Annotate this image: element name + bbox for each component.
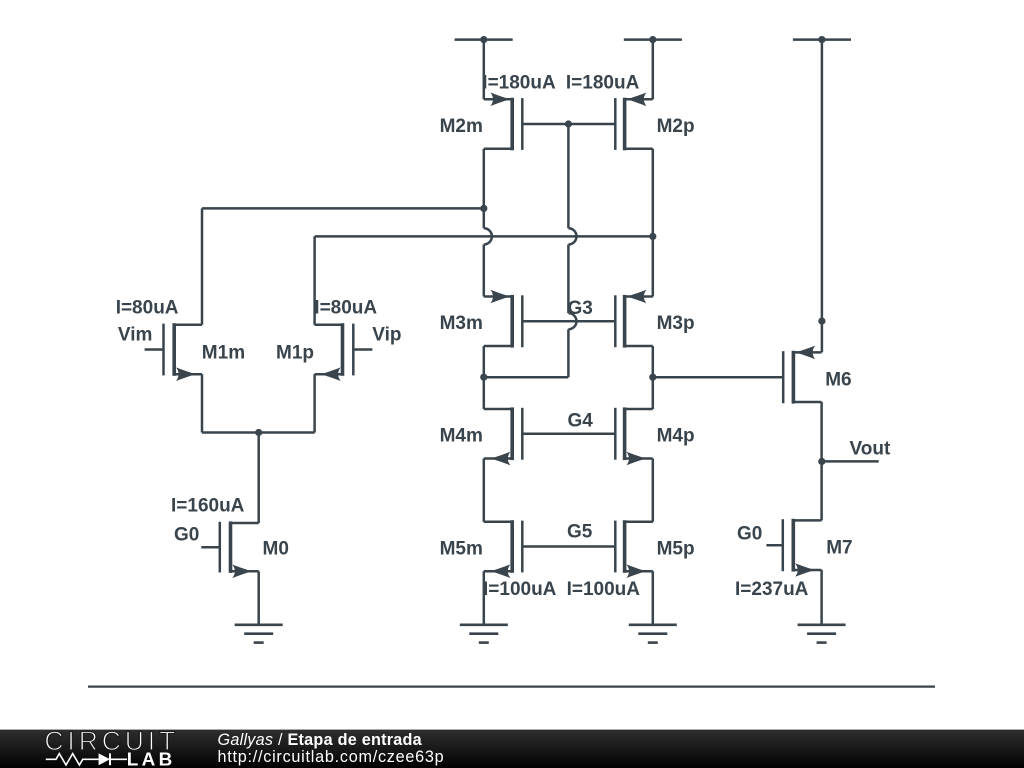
footer title Gallyas / Etapa de entrada bbox=[218, 731, 423, 749]
label M1m bbox=[202, 342, 245, 363]
transistor M1p bbox=[315, 323, 354, 381]
svg-text:M5m: M5m bbox=[440, 539, 483, 560]
junction dot M2 gates bbox=[565, 120, 572, 127]
svg-text:M3p: M3p bbox=[657, 313, 695, 334]
svg-text:M6: M6 bbox=[825, 370, 851, 391]
power rail T (middle) bbox=[624, 38, 682, 41]
wire column B M2p drain to M3p source bbox=[652, 149, 655, 297]
svg-text:I=160uA: I=160uA bbox=[171, 496, 245, 517]
ground under M5p bbox=[629, 625, 677, 643]
svg-text:I=237uA: I=237uA bbox=[735, 579, 809, 600]
junction dot M1p drain at column B bbox=[649, 233, 656, 240]
transistor M0 bbox=[220, 521, 259, 578]
svg-text:M5p: M5p bbox=[657, 539, 695, 560]
separator line bbox=[88, 685, 935, 687]
wire Vout stub bbox=[822, 460, 879, 463]
svg-text:M2p: M2p bbox=[657, 116, 695, 137]
svg-text:M2m: M2m bbox=[440, 116, 483, 137]
label M3p bbox=[657, 313, 695, 334]
transistor M5m bbox=[484, 520, 523, 578]
transistor M6 bbox=[783, 346, 821, 404]
logo diode bbox=[99, 753, 127, 765]
value label I=100uA (M5m) bbox=[483, 579, 557, 600]
wire node34 to M2-gate drop bbox=[484, 376, 569, 379]
junction dot node34 A bbox=[480, 374, 487, 381]
wire M7 gate lead bbox=[766, 544, 782, 547]
wire column A M4m source to M5m drain bbox=[483, 459, 486, 522]
wire M1m gate lead bbox=[145, 348, 164, 351]
wire node34 to M6 gate bbox=[653, 376, 784, 379]
svg-text:G4: G4 bbox=[568, 410, 594, 431]
node label G5 bbox=[567, 522, 593, 543]
svg-text:Vim: Vim bbox=[118, 325, 153, 346]
junction dot M1m drain at column A bbox=[480, 205, 487, 212]
wire M0 source to ground bbox=[257, 571, 260, 625]
wire M5m source to ground bbox=[483, 571, 486, 625]
net label Vout bbox=[850, 438, 891, 459]
wire M1p drain horizontal bbox=[315, 235, 653, 238]
svg-text:I=100uA: I=100uA bbox=[483, 579, 557, 600]
wire tail to M0 drain bbox=[257, 433, 260, 524]
label M5p bbox=[657, 539, 695, 560]
footer bar bbox=[0, 730, 1024, 768]
value label I=100uA (M5p) bbox=[567, 579, 641, 600]
svg-text:M4m: M4m bbox=[440, 426, 483, 447]
svg-text:M1p: M1p bbox=[276, 342, 314, 363]
value label I=80uA (M1p) bbox=[314, 298, 377, 319]
wire column A M2m drain to M3m source (with hop) bbox=[484, 149, 492, 297]
label M5m bbox=[440, 539, 483, 560]
wire M1p source down bbox=[313, 374, 316, 432]
junction dot rail middle bbox=[649, 36, 656, 43]
svg-text:M0: M0 bbox=[263, 539, 289, 560]
value label I=180uA (M2m) bbox=[482, 73, 556, 94]
transistor M2m bbox=[484, 93, 523, 151]
transistor M3m bbox=[484, 290, 523, 348]
logo resistor zigzag bbox=[46, 754, 99, 765]
value label I=180uA (M2p) bbox=[566, 73, 640, 94]
wire M7 source to ground bbox=[820, 570, 823, 625]
label Vip bbox=[372, 325, 401, 346]
wire M1m drain horizontal bbox=[202, 207, 484, 210]
footer url bbox=[218, 748, 445, 766]
power rail T (left) bbox=[455, 38, 513, 41]
ground under M7 bbox=[798, 625, 846, 643]
wire M1m drain vertical bbox=[201, 208, 204, 324]
ground under M0 bbox=[235, 625, 283, 643]
svg-text:G3: G3 bbox=[568, 298, 593, 319]
transistor M2p bbox=[615, 93, 653, 151]
transistor M1m bbox=[164, 323, 203, 381]
node label G3 bbox=[568, 298, 593, 319]
svg-text:Gallyas / Etapa de entrada: Gallyas / Etapa de entrada bbox=[218, 731, 423, 749]
wire M1p drain vertical bbox=[313, 236, 316, 324]
label M2m bbox=[440, 116, 483, 137]
wire M1p gate lead bbox=[353, 348, 372, 351]
wire G5 gates bbox=[522, 545, 615, 548]
wire column B M3p drain to M4p drain bbox=[652, 346, 655, 409]
wire G4 gates bbox=[522, 432, 615, 435]
label M3m bbox=[440, 313, 483, 334]
svg-text:Vout: Vout bbox=[850, 438, 891, 459]
transistor M7 bbox=[783, 519, 822, 577]
transistor M4m bbox=[484, 407, 523, 465]
CircuitLab logo CIRCUIT bbox=[44, 726, 179, 756]
node label G4 bbox=[568, 410, 594, 431]
wire M5p source to ground bbox=[652, 571, 655, 625]
svg-text:I=180uA: I=180uA bbox=[482, 73, 556, 94]
svg-text:LAB: LAB bbox=[127, 750, 176, 768]
label M6 bbox=[825, 370, 851, 391]
wire column B M4p source to M5p drain bbox=[652, 459, 655, 522]
wire M1m source down bbox=[201, 374, 204, 432]
label M4p bbox=[657, 426, 695, 447]
wire M1 common tail bbox=[202, 431, 315, 434]
svg-text:G0: G0 bbox=[737, 524, 762, 545]
svg-text:http://circuitlab.com/czee63p: http://circuitlab.com/czee63p bbox=[218, 748, 445, 766]
label M2p bbox=[657, 116, 695, 137]
svg-text:M3m: M3m bbox=[440, 313, 483, 334]
wire G3 gates bbox=[522, 320, 615, 323]
value label I=160uA (M0) bbox=[171, 496, 245, 517]
label M0 bbox=[263, 539, 289, 560]
transistor M5p bbox=[615, 520, 653, 578]
svg-text:M7: M7 bbox=[826, 538, 852, 559]
label G0 (M0 gate) bbox=[174, 525, 199, 546]
logo LAB bbox=[127, 750, 176, 768]
svg-text:I=180uA: I=180uA bbox=[566, 73, 640, 94]
label M1p bbox=[276, 342, 314, 363]
wire column A M3m drain to M4m drain bbox=[483, 346, 486, 409]
label M4m bbox=[440, 426, 483, 447]
junction dot Vout bbox=[818, 458, 825, 465]
wire M2 gates bbox=[522, 123, 615, 126]
wire rail-left to M2m source bbox=[483, 40, 486, 100]
svg-text:M1m: M1m bbox=[202, 342, 245, 363]
wire M0 gate lead bbox=[201, 546, 220, 549]
junction dot on right rail bbox=[818, 318, 825, 325]
svg-text:G0: G0 bbox=[174, 525, 199, 546]
svg-text:I=100uA: I=100uA bbox=[567, 579, 641, 600]
svg-text:I=80uA: I=80uA bbox=[116, 298, 179, 319]
label M7 bbox=[826, 538, 852, 559]
label G0 (M7 gate) bbox=[737, 524, 762, 545]
wire right rail down to M6 source bbox=[821, 40, 824, 353]
transistor M3p bbox=[615, 290, 653, 348]
wire M2-gate drop with hops bbox=[568, 124, 576, 377]
svg-text:G5: G5 bbox=[567, 522, 593, 543]
junction dot tail bbox=[255, 429, 262, 436]
ground under M5m bbox=[460, 625, 508, 643]
svg-text:I=80uA: I=80uA bbox=[314, 298, 377, 319]
svg-text:M4p: M4p bbox=[657, 426, 695, 447]
wire M6 drain to M7 drain bbox=[820, 402, 823, 520]
transistor M4p bbox=[615, 407, 653, 465]
junction dot rail right bbox=[818, 36, 825, 43]
power rail T (right) bbox=[793, 38, 851, 41]
wire rail-middle to M2p source bbox=[652, 40, 655, 100]
junction dot node34 B bbox=[649, 374, 656, 381]
value label I=237uA (M7) bbox=[735, 579, 809, 600]
value label I=80uA (M1m) bbox=[116, 298, 179, 319]
svg-text:Vip: Vip bbox=[372, 325, 401, 346]
label Vim bbox=[118, 325, 153, 346]
junction dot rail left bbox=[480, 36, 487, 43]
